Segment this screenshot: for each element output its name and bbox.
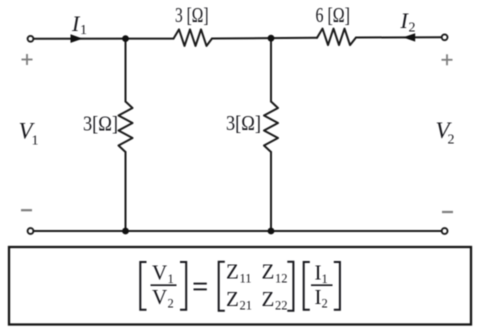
arrow I2 current direction bbox=[403, 33, 415, 41]
svg-text:Z: Z bbox=[226, 260, 239, 284]
svg-text:6 [Ω]: 6 [Ω] bbox=[316, 3, 351, 27]
resistor R3 3-ohm shunt zigzag bbox=[119, 102, 133, 153]
svg-text:3[Ω]: 3[Ω] bbox=[83, 112, 118, 136]
terminal port 1 top (open circle) bbox=[28, 36, 34, 42]
wire right shunt upper bbox=[270, 38, 272, 101]
wire bottom rail bbox=[34, 230, 442, 232]
svg-text:2: 2 bbox=[168, 296, 174, 310]
svg-text:Z: Z bbox=[262, 287, 275, 311]
svg-text:1: 1 bbox=[322, 272, 328, 286]
svg-text:11: 11 bbox=[240, 271, 252, 285]
svg-text:21: 21 bbox=[240, 299, 253, 313]
node C bottom-left junction bbox=[122, 228, 129, 235]
svg-text:2: 2 bbox=[322, 296, 328, 310]
polarity plus port 1 bbox=[22, 54, 33, 65]
svg-text:V: V bbox=[152, 285, 167, 309]
wire left shunt lower bbox=[125, 152, 127, 231]
node A top-left junction bbox=[122, 35, 129, 42]
equation fraction bar V bbox=[151, 284, 177, 286]
node B top-right junction bbox=[268, 35, 275, 42]
svg-text:22: 22 bbox=[275, 299, 288, 313]
svg-text:2: 2 bbox=[409, 21, 416, 36]
svg-text:V: V bbox=[152, 261, 167, 285]
svg-text:I: I bbox=[315, 261, 322, 285]
svg-text:1: 1 bbox=[168, 272, 174, 286]
equation box frame bbox=[9, 247, 471, 325]
resistor R4 3-ohm shunt zigzag bbox=[264, 102, 278, 153]
equation bracket left of I vector bbox=[304, 262, 310, 310]
equation equals sign bbox=[194, 284, 207, 290]
svg-text:3 [Ω]: 3 [Ω] bbox=[175, 3, 209, 27]
wire right shunt lower bbox=[270, 152, 272, 231]
polarity minus port 2 bbox=[442, 211, 453, 213]
resistor R2 6-ohm series zigzag bbox=[317, 29, 356, 45]
equation bracket right of I vector bbox=[334, 262, 340, 310]
equation fraction bar I bbox=[311, 284, 333, 286]
svg-text:12: 12 bbox=[275, 271, 288, 285]
svg-text:2: 2 bbox=[448, 133, 455, 148]
svg-text:Z: Z bbox=[262, 260, 275, 284]
svg-text:Z: Z bbox=[226, 287, 239, 311]
equation bracket left of V vector bbox=[140, 262, 146, 310]
equation bracket right of V vector bbox=[180, 262, 186, 310]
wire left shunt upper bbox=[125, 39, 127, 102]
svg-text:3[Ω]: 3[Ω] bbox=[226, 111, 261, 135]
wire top-middle segment bbox=[212, 37, 317, 40]
polarity plus port 2 bbox=[442, 54, 453, 65]
svg-text:1: 1 bbox=[80, 23, 87, 38]
node D bottom-right junction bbox=[268, 228, 275, 235]
terminal port 1 bottom (open circle) bbox=[28, 228, 34, 234]
wire top-left segment bbox=[34, 38, 174, 40]
equation bracket right of Z matrix bbox=[287, 262, 293, 311]
resistor R1 3-ohm series zigzag bbox=[174, 29, 213, 46]
terminal port 2 top (open circle) bbox=[442, 34, 448, 40]
equation bracket left of Z matrix bbox=[219, 262, 225, 311]
wire top-right segment bbox=[356, 36, 442, 38]
terminal port 2 bottom (open circle) bbox=[442, 228, 448, 234]
svg-text:1: 1 bbox=[32, 134, 39, 149]
svg-text:I: I bbox=[315, 285, 322, 309]
arrow I1 current direction bbox=[71, 34, 83, 43]
polarity minus port 1 bbox=[21, 209, 32, 211]
